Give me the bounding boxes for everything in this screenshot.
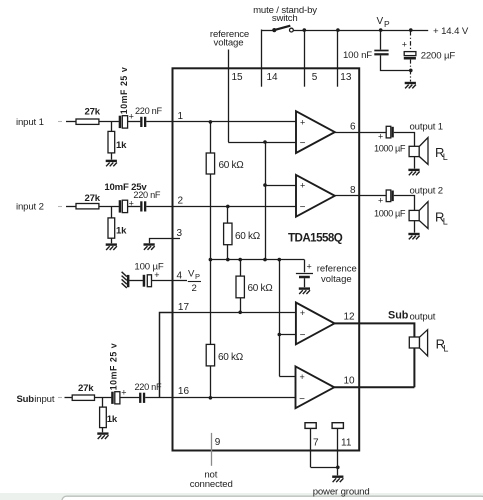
svg-text:P: P [195,272,200,281]
tab pin 11 rectangle [332,423,343,429]
node rail/2200uF [409,28,413,32]
svg-text:27k: 27k [85,193,101,204]
op-amp U1 [296,111,335,153]
wire cap to 220nF (sub) [120,397,139,399]
wire reference feedback to U1 - input [228,142,296,144]
bottom input box [62,496,483,500]
wire pin 5 stub [304,30,306,87]
wire pin 13 stub [337,30,339,87]
wire pin 8 output [335,195,386,197]
svg-text:V: V [188,269,195,280]
wire 100uF to pin 4 [152,280,187,282]
node pin16 / 60k divider [209,396,213,400]
svg-text:7: 7 [313,437,319,448]
capacitor 220 nF (input 1) [140,117,146,127]
wire cap to 220nF (input 2) [128,206,141,208]
label RL (output 2) [435,209,448,226]
svg-text:output 1: output 1 [410,122,443,133]
svg-text:100 nF: 100 nF [343,50,372,61]
svg-text:+: + [154,270,159,280]
chassis ground symbol (pin 4) [122,272,130,288]
ground symbol reference cap [299,289,310,294]
label Sub input [17,394,55,405]
wire 60k R2 bottom lead to bus [227,245,229,260]
svg-text:1000 µF: 1000 µF [374,144,406,154]
svg-text:220 nF: 220 nF [135,106,162,116]
svg-text:L: L [443,152,448,162]
capacitor 100 nF [374,51,388,55]
speaker RL (output 1) [409,138,428,165]
svg-text:11: 11 [341,437,352,448]
node bus/60k R3 [238,258,242,262]
svg-text:reference: reference [317,264,357,275]
wire dash-dot 2200uF bottom lead [410,60,412,71]
wire supply rail right segment [293,30,428,32]
svg-text:220 nF: 220 nF [133,190,160,200]
wire cap to 220nF (input 1) [128,121,141,123]
svg-text:input 2: input 2 [16,202,44,213]
wire 1k top lead (sub) [102,398,104,407]
wire pin 1 into IC to op-amp U1 + input [146,121,296,123]
svg-text:−: − [300,202,306,213]
node branch U2+ [263,183,267,187]
svg-text:27k: 27k [78,383,94,394]
resistor R 27k (input 2) [76,204,99,209]
wire pin 16 into IC to op-amp U4 - input [145,397,295,399]
speaker RL (sub output) [409,330,427,356]
wire pin 9 not connected [211,433,213,466]
wire cap to speaker 2 [394,196,415,211]
svg-text:13: 13 [340,72,352,83]
resistor 60k R2 [224,223,232,245]
wire 1k bottom lead (sub) [102,428,104,433]
resistor 60k R4 [206,344,214,366]
svg-text:+: + [121,388,126,398]
node bus/60k R2 [226,258,230,262]
svg-text:connected: connected [190,479,233,490]
svg-text:+ 14.4 V: + 14.4 V [433,26,469,37]
resistor 60k R1 [206,153,214,174]
wire reference cap to ground [304,278,306,287]
svg-text:+: + [378,132,383,142]
label RL (output 1) [435,145,448,162]
svg-text:−: − [299,394,305,405]
wire speaker 1 to ground [414,157,416,169]
svg-text:+: + [300,117,305,127]
svg-text:+: + [299,372,304,382]
svg-text:voltage: voltage [214,38,244,49]
speaker RL (output 2) [409,202,428,229]
resistor R 1k (input 2) [108,218,115,238]
capacitor 100 uF electrolytic (pin 4) [143,275,152,287]
svg-text:60 kΩ: 60 kΩ [235,231,261,242]
wire chassis to 100uF [129,280,143,282]
label mute / stand-by switch [253,5,317,24]
wire pin 17 internal to U3 + input [173,312,296,314]
node rail/VP [379,28,383,32]
svg-text:10: 10 [344,376,356,387]
svg-text:L: L [443,216,448,226]
svg-text:1000 µF: 1000 µF [374,209,406,219]
svg-text:15: 15 [232,72,244,83]
svg-text:P: P [384,19,390,29]
svg-text:Sub: Sub [17,394,35,405]
svg-text:+: + [402,40,407,50]
svg-text:+: + [300,308,305,318]
svg-text:power ground: power ground [313,487,370,498]
wire dash-dot 2200uF top lead [410,31,412,51]
wire 60k R3 bottom lead [240,298,242,313]
resistor R 27k (sub) [72,395,94,400]
wire pin 11 down [337,428,339,467]
svg-text:8: 8 [350,185,356,196]
node riser/U3 - input [278,333,282,337]
wire 1k bottom lead (input 1) [111,153,113,160]
svg-text:TDA1558Q: TDA1558Q [288,232,343,245]
node pin1 / 60k divider [209,120,213,124]
wire 100nF bottom to junction [381,55,411,70]
svg-text:1k: 1k [107,414,118,425]
ground symbol power ground [332,477,343,482]
wire 1k top lead (input 2) [111,206,113,218]
wire pin 7 down [310,428,312,467]
label Sub output [388,310,436,323]
wire 60k R1 top lead [210,122,212,153]
ground symbol speaker 2 [408,234,419,239]
wire pin7 to pin11 join [311,467,338,469]
IC package outline TDA1558Q [173,68,360,450]
svg-text:17: 17 [178,302,190,313]
svg-text:60 kΩ: 60 kΩ [219,160,245,171]
wire join to power ground [337,467,339,475]
wire reference vertical branch [265,142,267,260]
node pin2 / 60k feedback [226,205,230,209]
svg-text:switch: switch [272,13,298,24]
svg-text:10mF 25 v: 10mF 25 v [109,343,119,391]
svg-text:V: V [377,16,384,27]
wire speaker 2 to ground [414,221,416,233]
wire bus corner to internal reference cap [304,260,306,273]
svg-text:60 kΩ: 60 kΩ [248,283,274,294]
node rail/pin5 [303,28,307,32]
wire pin 14 from switch [261,30,263,87]
capacitor 1000 uF (output 2) [386,190,394,202]
wire pin 10 output [334,386,414,388]
svg-text:3: 3 [177,228,183,239]
svg-text:output 2: output 2 [410,185,443,196]
svg-text:27k: 27k [85,106,101,117]
wire supply rail left segment [261,30,274,32]
wire VP node to 100nF [380,30,382,49]
svg-text:14: 14 [267,72,279,83]
svg-text:5: 5 [312,72,318,83]
wire 60k R2 top lead [227,206,229,223]
wire pin 6 output [335,132,386,134]
wire 27k to coupling cap (input 1) [99,121,119,123]
svg-text:16: 16 [178,386,190,397]
node bus/riser [278,258,282,262]
label VP supply [377,16,391,29]
wire cap to speaker 1 [394,133,415,147]
svg-text:1k: 1k [116,226,127,237]
switch S1 mute/stand-by [272,26,293,33]
resistor 60k R3 [236,276,244,298]
svg-text:2200 µF: 2200 µF [421,51,456,62]
wire pin 12 output to sub speaker [335,323,415,387]
wire sub input lead-in [58,397,72,399]
svg-text:Sub: Sub [388,310,409,322]
resistor R 1k (input 1) [108,131,115,153]
op-amp U3 [296,303,335,345]
wire dash-dot to power ground symbol [410,70,412,81]
capacitor 220 nF (sub) [139,393,145,403]
svg-text:+: + [378,195,383,205]
svg-text:−: − [300,330,306,341]
wire riser to U4 + input [279,376,295,378]
svg-text:+: + [307,262,312,272]
tab pin 7 rectangle [305,423,316,429]
wire pin 15 reference voltage line [228,50,230,143]
svg-text:2: 2 [192,283,197,294]
label reference voltage (top) [210,29,249,49]
svg-text:12: 12 [344,312,356,323]
ground symbol input 1 [106,161,117,166]
capacitor 1000 uF (output 1) [386,126,394,138]
wire pin 3 stub to ground [150,239,181,244]
ground symbol pin 3 [144,245,155,250]
node feedback branch (U1-) [263,140,267,144]
wire pin 2 into IC to op-amp U2 - input [146,206,296,208]
label reference voltage (internal) [317,264,357,285]
wire reference bus horizontal [210,259,304,261]
ground symbol under 2200uF [405,83,416,88]
capacitor 2200 uF electrolytic [404,52,416,59]
wire 60k R3 top lead [240,260,242,277]
svg-text:10mF 25 v: 10mF 25 v [119,67,129,115]
capacitor 220 nF (input 2) [140,201,146,211]
wire input 1 lead-in [58,121,76,123]
label VP/2 [188,269,201,295]
svg-text:1: 1 [178,111,184,122]
node 100nF/2200uF junction [409,69,413,73]
svg-text:60 kΩ: 60 kΩ [218,352,244,363]
svg-text:voltage: voltage [321,274,352,285]
ground symbol speaker 1 [408,170,419,175]
wire 60k R1 bottom lead to bus [210,174,212,260]
capacitor 10mF 25v electrolytic (input 1) [119,116,128,128]
svg-text:−: − [300,138,306,149]
op-amp U4 [296,366,335,408]
svg-text:input: input [34,394,55,405]
ground symbol sub input [97,434,108,439]
wire branch to U2 + input [265,185,296,187]
node 60k R3 / pin 17 line [238,311,242,315]
wire 60k R4 vertical from bus [210,260,212,345]
label RL (sub) [436,337,449,354]
label not connected [190,470,233,490]
node bus/branch [263,258,267,262]
svg-text:4: 4 [177,270,183,281]
bottom page band [0,493,483,500]
svg-text:6: 6 [350,121,356,132]
svg-text:L: L [443,344,448,354]
capacitor internal reference voltage [296,274,313,278]
wire riser to U3 - input [279,334,296,336]
wire 1k top lead (input 1) [111,122,113,131]
capacitor 10mF 25v electrolytic (input 2) [119,200,128,212]
wire 1k bottom lead (input 2) [111,238,113,243]
op-amp U2 [296,175,335,217]
wire riser bus to U3/U4 inputs [279,260,281,377]
resistor R 1k (sub) [100,407,107,428]
svg-text:+: + [129,111,134,121]
svg-text:+: + [300,181,305,191]
node bus/60k R1 [209,258,213,262]
wire 27k to coupling cap (sub) [95,397,112,399]
wire 60k R4 bottom lead to pin16 line [210,366,212,398]
svg-text:220 nF: 220 nF [135,382,162,392]
svg-text:9: 9 [215,437,221,448]
svg-text:output: output [410,312,436,323]
svg-text:2: 2 [178,195,184,206]
ground symbol input 2 [106,245,117,250]
svg-text:input 1: input 1 [16,117,44,128]
wire 27k to coupling cap (input 2) [99,206,119,208]
resistor R 27k (input 1) [76,119,99,124]
node power ground join [336,466,340,470]
node rail/pin13 [336,28,340,32]
wire pin 17 external link down to pin 16 [160,313,173,398]
wire input 2 lead-in [58,206,76,208]
capacitor 10mF 25v electrolytic (sub) [111,392,120,404]
svg-text:1k: 1k [116,140,127,151]
